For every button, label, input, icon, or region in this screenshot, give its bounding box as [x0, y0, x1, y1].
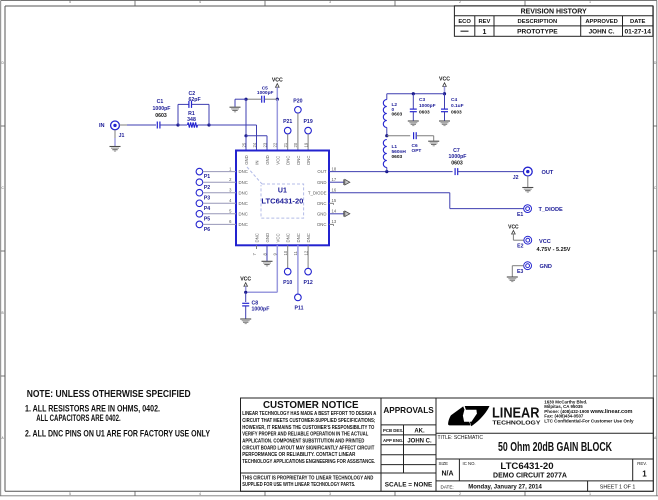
- svg-text:1: 1: [589, 0, 591, 4]
- svg-text:1000pF: 1000pF: [257, 90, 274, 96]
- svg-text:50 Ohm 20dB GAIN BLOCK: 50 Ohm 20dB GAIN BLOCK: [498, 440, 612, 454]
- svg-text:DNC: DNC: [306, 233, 311, 242]
- svg-text:DNC: DNC: [296, 155, 301, 164]
- svg-text:T_DIODE: T_DIODE: [539, 207, 564, 213]
- svg-text:0603: 0603: [392, 112, 403, 118]
- svg-text:AK.: AK.: [414, 429, 425, 435]
- svg-text:VERIFY PROPER AND RELIABLE OPE: VERIFY PROPER AND RELIABLE OPERATION IN …: [242, 432, 369, 438]
- svg-text:18: 18: [332, 166, 337, 171]
- svg-text:P4: P4: [204, 206, 210, 212]
- svg-text:IN: IN: [255, 160, 260, 164]
- svg-text:0.1uF: 0.1uF: [451, 103, 464, 109]
- svg-text:GND: GND: [317, 180, 327, 185]
- svg-text:DNC: DNC: [239, 201, 248, 206]
- svg-text:DESCRIPTION: DESCRIPTION: [518, 19, 558, 25]
- svg-text:DEMO CIRCUIT 2077A: DEMO CIRCUIT 2077A: [493, 473, 567, 480]
- svg-text:DNC: DNC: [317, 201, 326, 206]
- svg-text:DATE: DATE: [630, 19, 645, 25]
- svg-text:VCC: VCC: [275, 233, 280, 242]
- svg-text:4: 4: [199, 0, 201, 4]
- svg-text:C7: C7: [453, 148, 460, 154]
- svg-text:DNC: DNC: [239, 211, 248, 216]
- svg-text:APPLICATION. COMPONENT SUBSTI: APPLICATION. COMPONENT SUBSTITUTION AND …: [242, 438, 364, 444]
- svg-text:P6: P6: [204, 227, 210, 233]
- svg-text:ALL CAPACITORS ARE 0402.: ALL CAPACITORS ARE 0402.: [36, 413, 121, 423]
- svg-text:0603: 0603: [451, 109, 462, 115]
- svg-text:GND: GND: [265, 233, 270, 243]
- svg-text:17: 17: [332, 177, 337, 182]
- svg-text:25: 25: [241, 142, 246, 147]
- svg-text:REVISION HISTORY: REVISION HISTORY: [521, 9, 587, 16]
- svg-text:E3: E3: [517, 269, 523, 275]
- svg-text:01-27-14: 01-27-14: [624, 29, 651, 36]
- svg-text:22: 22: [273, 142, 278, 147]
- svg-text:P1: P1: [204, 174, 210, 180]
- svg-text:0603: 0603: [392, 154, 403, 160]
- svg-text:23: 23: [262, 142, 267, 147]
- svg-text:LINEAR: LINEAR: [492, 406, 540, 422]
- svg-text:1. ALL RESISTORS ARE IN OHMS,: 1. ALL RESISTORS ARE IN OHMS, 0402.: [25, 403, 160, 413]
- svg-text:1000pF: 1000pF: [449, 154, 467, 160]
- svg-text:GND: GND: [265, 155, 270, 165]
- svg-text:62pF: 62pF: [189, 97, 201, 103]
- svg-text:C1: C1: [157, 99, 164, 105]
- svg-text:CUSTOMER NOTICE: CUSTOMER NOTICE: [263, 400, 359, 411]
- svg-text:2: 2: [459, 492, 461, 496]
- svg-text:19: 19: [303, 142, 308, 147]
- svg-text:DNC: DNC: [239, 222, 248, 227]
- svg-text:CIRCUIT BOARD LAYOUT MAY SIGNI: CIRCUIT BOARD LAYOUT MAY SIGNIFICANTLY A…: [242, 445, 375, 451]
- svg-text:CIRCUIT THAT MEETS CUSTOMER-SU: CIRCUIT THAT MEETS CUSTOMER-SUPPLIED SPE…: [242, 418, 375, 424]
- svg-text:15: 15: [332, 198, 337, 203]
- svg-text:OUT: OUT: [542, 170, 554, 176]
- svg-text:P20: P20: [293, 99, 302, 105]
- svg-text:DNC: DNC: [296, 233, 301, 242]
- svg-text:2. ALL DNC PINS ON U1 ARE FOR: 2. ALL DNC PINS ON U1 ARE FOR FACTORY US…: [25, 429, 210, 439]
- svg-text:348: 348: [187, 117, 196, 123]
- svg-text:GND: GND: [244, 155, 249, 165]
- svg-text:NOTE: UNLESS OTHERWISE SPECIFI: NOTE: UNLESS OTHERWISE SPECIFIED: [27, 389, 191, 400]
- svg-text:20: 20: [293, 142, 298, 147]
- svg-text:SUPPLIED FOR USE WITH LINEAR T: SUPPLIED FOR USE WITH LINEAR TECHNOLOGY …: [242, 482, 355, 488]
- svg-text:LTC6431-20: LTC6431-20: [500, 461, 553, 472]
- svg-text:SCALE = NONE: SCALE = NONE: [385, 481, 433, 488]
- svg-text:VCC: VCC: [539, 239, 551, 245]
- svg-text:REV: REV: [478, 19, 490, 25]
- svg-text:PROTOTYPE: PROTOTYPE: [517, 29, 558, 36]
- svg-text:LTC Confidential-For Customer: LTC Confidential-For Customer Use Only: [544, 419, 634, 424]
- svg-text:14: 14: [332, 209, 337, 214]
- svg-text:IN: IN: [99, 123, 105, 129]
- svg-text:IC NO.: IC NO.: [463, 461, 476, 466]
- svg-text:P11: P11: [295, 306, 304, 312]
- svg-text:13: 13: [332, 219, 337, 224]
- svg-text:APPROVED: APPROVED: [585, 19, 618, 25]
- svg-text:TECHNOLOGY APPLICATIONS ENGINE: TECHNOLOGY APPLICATIONS ENGINEERING FOR …: [242, 459, 375, 465]
- svg-text:ECO: ECO: [458, 19, 471, 25]
- svg-text:THIS CIRCUIT IS PROPRIETARY TO: THIS CIRCUIT IS PROPRIETARY TO LINEAR TE…: [242, 475, 373, 481]
- svg-text:R1: R1: [188, 111, 195, 117]
- svg-text:4: 4: [199, 492, 201, 496]
- svg-text:GND: GND: [317, 211, 327, 216]
- svg-text:P10: P10: [283, 280, 292, 286]
- svg-text:16: 16: [332, 188, 337, 193]
- svg-text:APPROVALS: APPROVALS: [383, 406, 434, 415]
- svg-text:21: 21: [283, 142, 288, 147]
- svg-text:TITLE: SCHEMATIC: TITLE: SCHEMATIC: [438, 435, 484, 441]
- svg-text:PERFORMANCE OR RELIABILITY.: PERFORMANCE OR RELIABILITY. CONTACT LINE…: [242, 452, 355, 458]
- svg-text:VCC: VCC: [508, 224, 519, 230]
- svg-text:C4: C4: [451, 97, 457, 103]
- svg-text:1: 1: [589, 492, 591, 496]
- svg-text:P2: P2: [204, 185, 210, 191]
- svg-text:E1: E1: [517, 212, 523, 218]
- svg-text:1000pF: 1000pF: [153, 106, 171, 112]
- svg-text:DNC: DNC: [255, 233, 260, 242]
- svg-text:DNC: DNC: [306, 155, 311, 164]
- svg-text:3: 3: [329, 0, 331, 4]
- svg-text:3: 3: [329, 492, 331, 496]
- svg-text:DATE:: DATE:: [441, 484, 454, 489]
- svg-text:B: B: [2, 311, 4, 315]
- svg-text:DNC: DNC: [286, 233, 291, 242]
- svg-text:P5: P5: [204, 216, 210, 222]
- svg-text:J1: J1: [119, 133, 125, 139]
- svg-text:APP ENG.: APP ENG.: [383, 438, 403, 443]
- svg-text:HOWEVER, IT REMAINS THE CUSTOM: HOWEVER, IT REMAINS THE CUSTOMER'S RESPO…: [242, 425, 374, 431]
- svg-text:2: 2: [459, 0, 461, 4]
- svg-text:J2: J2: [513, 175, 519, 181]
- svg-text:1: 1: [642, 469, 647, 478]
- svg-text:P19: P19: [303, 119, 312, 125]
- svg-text:JOHN C.: JOHN C.: [407, 438, 432, 444]
- svg-text:LINEAR TECHNOLOGY HAS MADE A B: LINEAR TECHNOLOGY HAS MADE A BEST EFFORT…: [242, 411, 376, 417]
- svg-text:U1: U1: [278, 187, 287, 194]
- svg-text:SIZE: SIZE: [439, 461, 449, 466]
- svg-text:N/A: N/A: [441, 470, 453, 477]
- svg-text:VCC: VCC: [275, 156, 280, 165]
- svg-text:OPT: OPT: [412, 148, 422, 154]
- svg-text:LTC6431-20: LTC6431-20: [261, 198, 303, 205]
- svg-text:VCC: VCC: [439, 77, 450, 83]
- svg-text:5: 5: [69, 492, 71, 496]
- svg-text:DNC: DNC: [239, 180, 248, 185]
- svg-text:E2: E2: [517, 244, 523, 250]
- svg-text:4.75V - 5.25V: 4.75V - 5.25V: [537, 247, 572, 253]
- svg-text:VCC: VCC: [272, 77, 283, 83]
- svg-text:5: 5: [69, 0, 71, 4]
- svg-text:P21: P21: [283, 119, 292, 125]
- svg-text:DNC: DNC: [317, 222, 326, 227]
- svg-text:P12: P12: [303, 280, 312, 286]
- svg-text:0603: 0603: [155, 113, 167, 119]
- svg-text:C3: C3: [419, 97, 425, 103]
- svg-text:C8: C8: [252, 300, 259, 306]
- svg-text:T_DIODE: T_DIODE: [308, 190, 327, 195]
- svg-text:DNC: DNC: [239, 190, 248, 195]
- svg-text:GND: GND: [540, 264, 552, 270]
- svg-text:0603: 0603: [419, 109, 430, 115]
- svg-text:PCB DES.: PCB DES.: [383, 428, 403, 433]
- svg-text:DNC: DNC: [286, 155, 291, 164]
- svg-text:TECHNOLOGY: TECHNOLOGY: [492, 420, 540, 426]
- svg-text:0603: 0603: [451, 160, 463, 166]
- svg-text:24: 24: [252, 142, 257, 147]
- svg-text:P3: P3: [204, 195, 210, 201]
- svg-text:REV.: REV.: [637, 461, 647, 466]
- svg-text:OUT: OUT: [317, 169, 326, 174]
- svg-text:1: 1: [482, 29, 486, 36]
- svg-text:1000pF: 1000pF: [252, 307, 270, 313]
- svg-text:SHEET 1 OF 1: SHEET 1 OF 1: [600, 484, 636, 490]
- svg-text:B: B: [654, 311, 656, 315]
- svg-text:Monday, January 27, 2014: Monday, January 27, 2014: [468, 485, 542, 491]
- svg-text:DNC: DNC: [239, 169, 248, 174]
- svg-text:VCC: VCC: [240, 276, 251, 282]
- svg-text:1000pF: 1000pF: [419, 103, 436, 109]
- svg-text:JOHN C.: JOHN C.: [589, 29, 615, 36]
